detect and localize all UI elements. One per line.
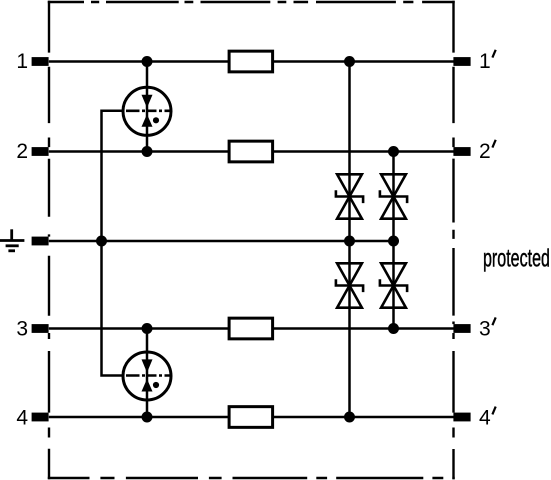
svg-text:2: 2 [16, 140, 28, 163]
svg-text:2: 2 [479, 140, 491, 163]
svg-text:3: 3 [16, 318, 28, 341]
svg-text:4: 4 [479, 407, 491, 430]
svg-text:protected: protected [483, 245, 550, 273]
svg-text:3: 3 [479, 318, 491, 341]
svg-text:1: 1 [16, 50, 28, 73]
svg-text:4: 4 [16, 407, 28, 430]
svg-text:1: 1 [479, 50, 491, 73]
